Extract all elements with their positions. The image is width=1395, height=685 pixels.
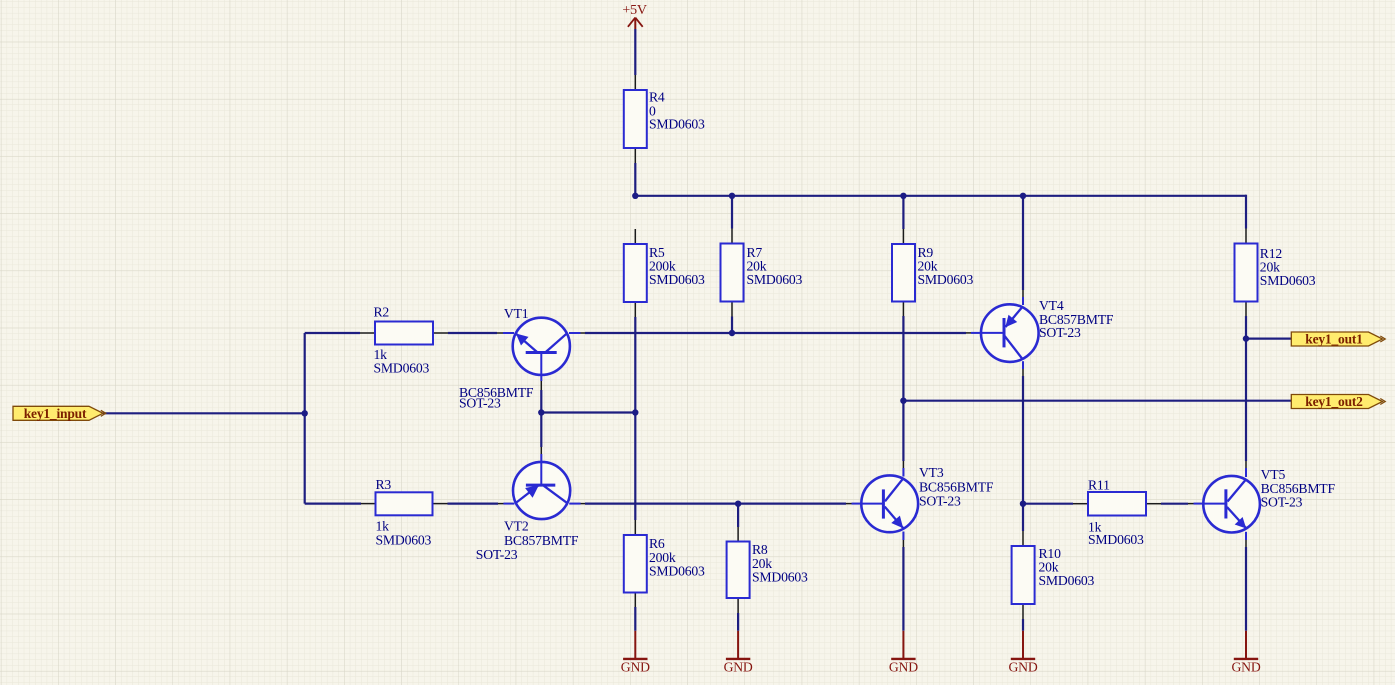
svg-text:R4: R4 [649, 90, 665, 105]
svg-text:SMD0603: SMD0603 [649, 117, 705, 132]
svg-text:VT3: VT3 [919, 465, 944, 480]
svg-text:GND: GND [621, 660, 650, 675]
svg-text:GND: GND [1231, 660, 1260, 675]
svg-text:R8: R8 [752, 542, 768, 557]
svg-text:VT5: VT5 [1261, 467, 1286, 482]
svg-text:key1_input: key1_input [24, 406, 87, 421]
svg-text:SMD0603: SMD0603 [1088, 532, 1144, 547]
svg-text:SMD0603: SMD0603 [752, 570, 808, 585]
svg-text:key1_out1: key1_out1 [1305, 332, 1363, 347]
svg-text:key1_out2: key1_out2 [1305, 394, 1363, 409]
svg-text:VT1: VT1 [504, 306, 529, 321]
svg-text:VT2: VT2 [504, 519, 529, 534]
svg-text:SOT-23: SOT-23 [476, 547, 518, 562]
svg-text:GND: GND [889, 660, 918, 675]
svg-text:1k: 1k [376, 519, 390, 534]
svg-text:BC856BMTF: BC856BMTF [919, 480, 994, 495]
svg-text:VT4: VT4 [1039, 298, 1064, 313]
svg-text:SOT-23: SOT-23 [1261, 495, 1303, 510]
svg-text:R2: R2 [374, 305, 390, 320]
svg-text:GND: GND [1008, 660, 1037, 675]
svg-text:SMD0603: SMD0603 [649, 272, 705, 287]
svg-text:R11: R11 [1088, 478, 1110, 493]
svg-text:SMD0603: SMD0603 [649, 564, 705, 579]
svg-text:+5V: +5V [622, 3, 646, 18]
svg-text:BC857BMTF: BC857BMTF [504, 533, 579, 548]
svg-text:R6: R6 [649, 536, 665, 551]
svg-text:R3: R3 [376, 477, 392, 492]
svg-text:SOT-23: SOT-23 [919, 494, 961, 509]
svg-text:SMD0603: SMD0603 [747, 272, 803, 287]
svg-text:SOT-23: SOT-23 [1039, 325, 1081, 340]
svg-text:SMD0603: SMD0603 [918, 272, 974, 287]
svg-text:SMD0603: SMD0603 [376, 533, 432, 548]
svg-text:GND: GND [724, 660, 753, 675]
svg-text:SMD0603: SMD0603 [374, 361, 430, 376]
svg-text:SMD0603: SMD0603 [1039, 573, 1095, 588]
svg-text:SMD0603: SMD0603 [1260, 273, 1316, 288]
svg-text:SOT-23: SOT-23 [459, 396, 501, 411]
